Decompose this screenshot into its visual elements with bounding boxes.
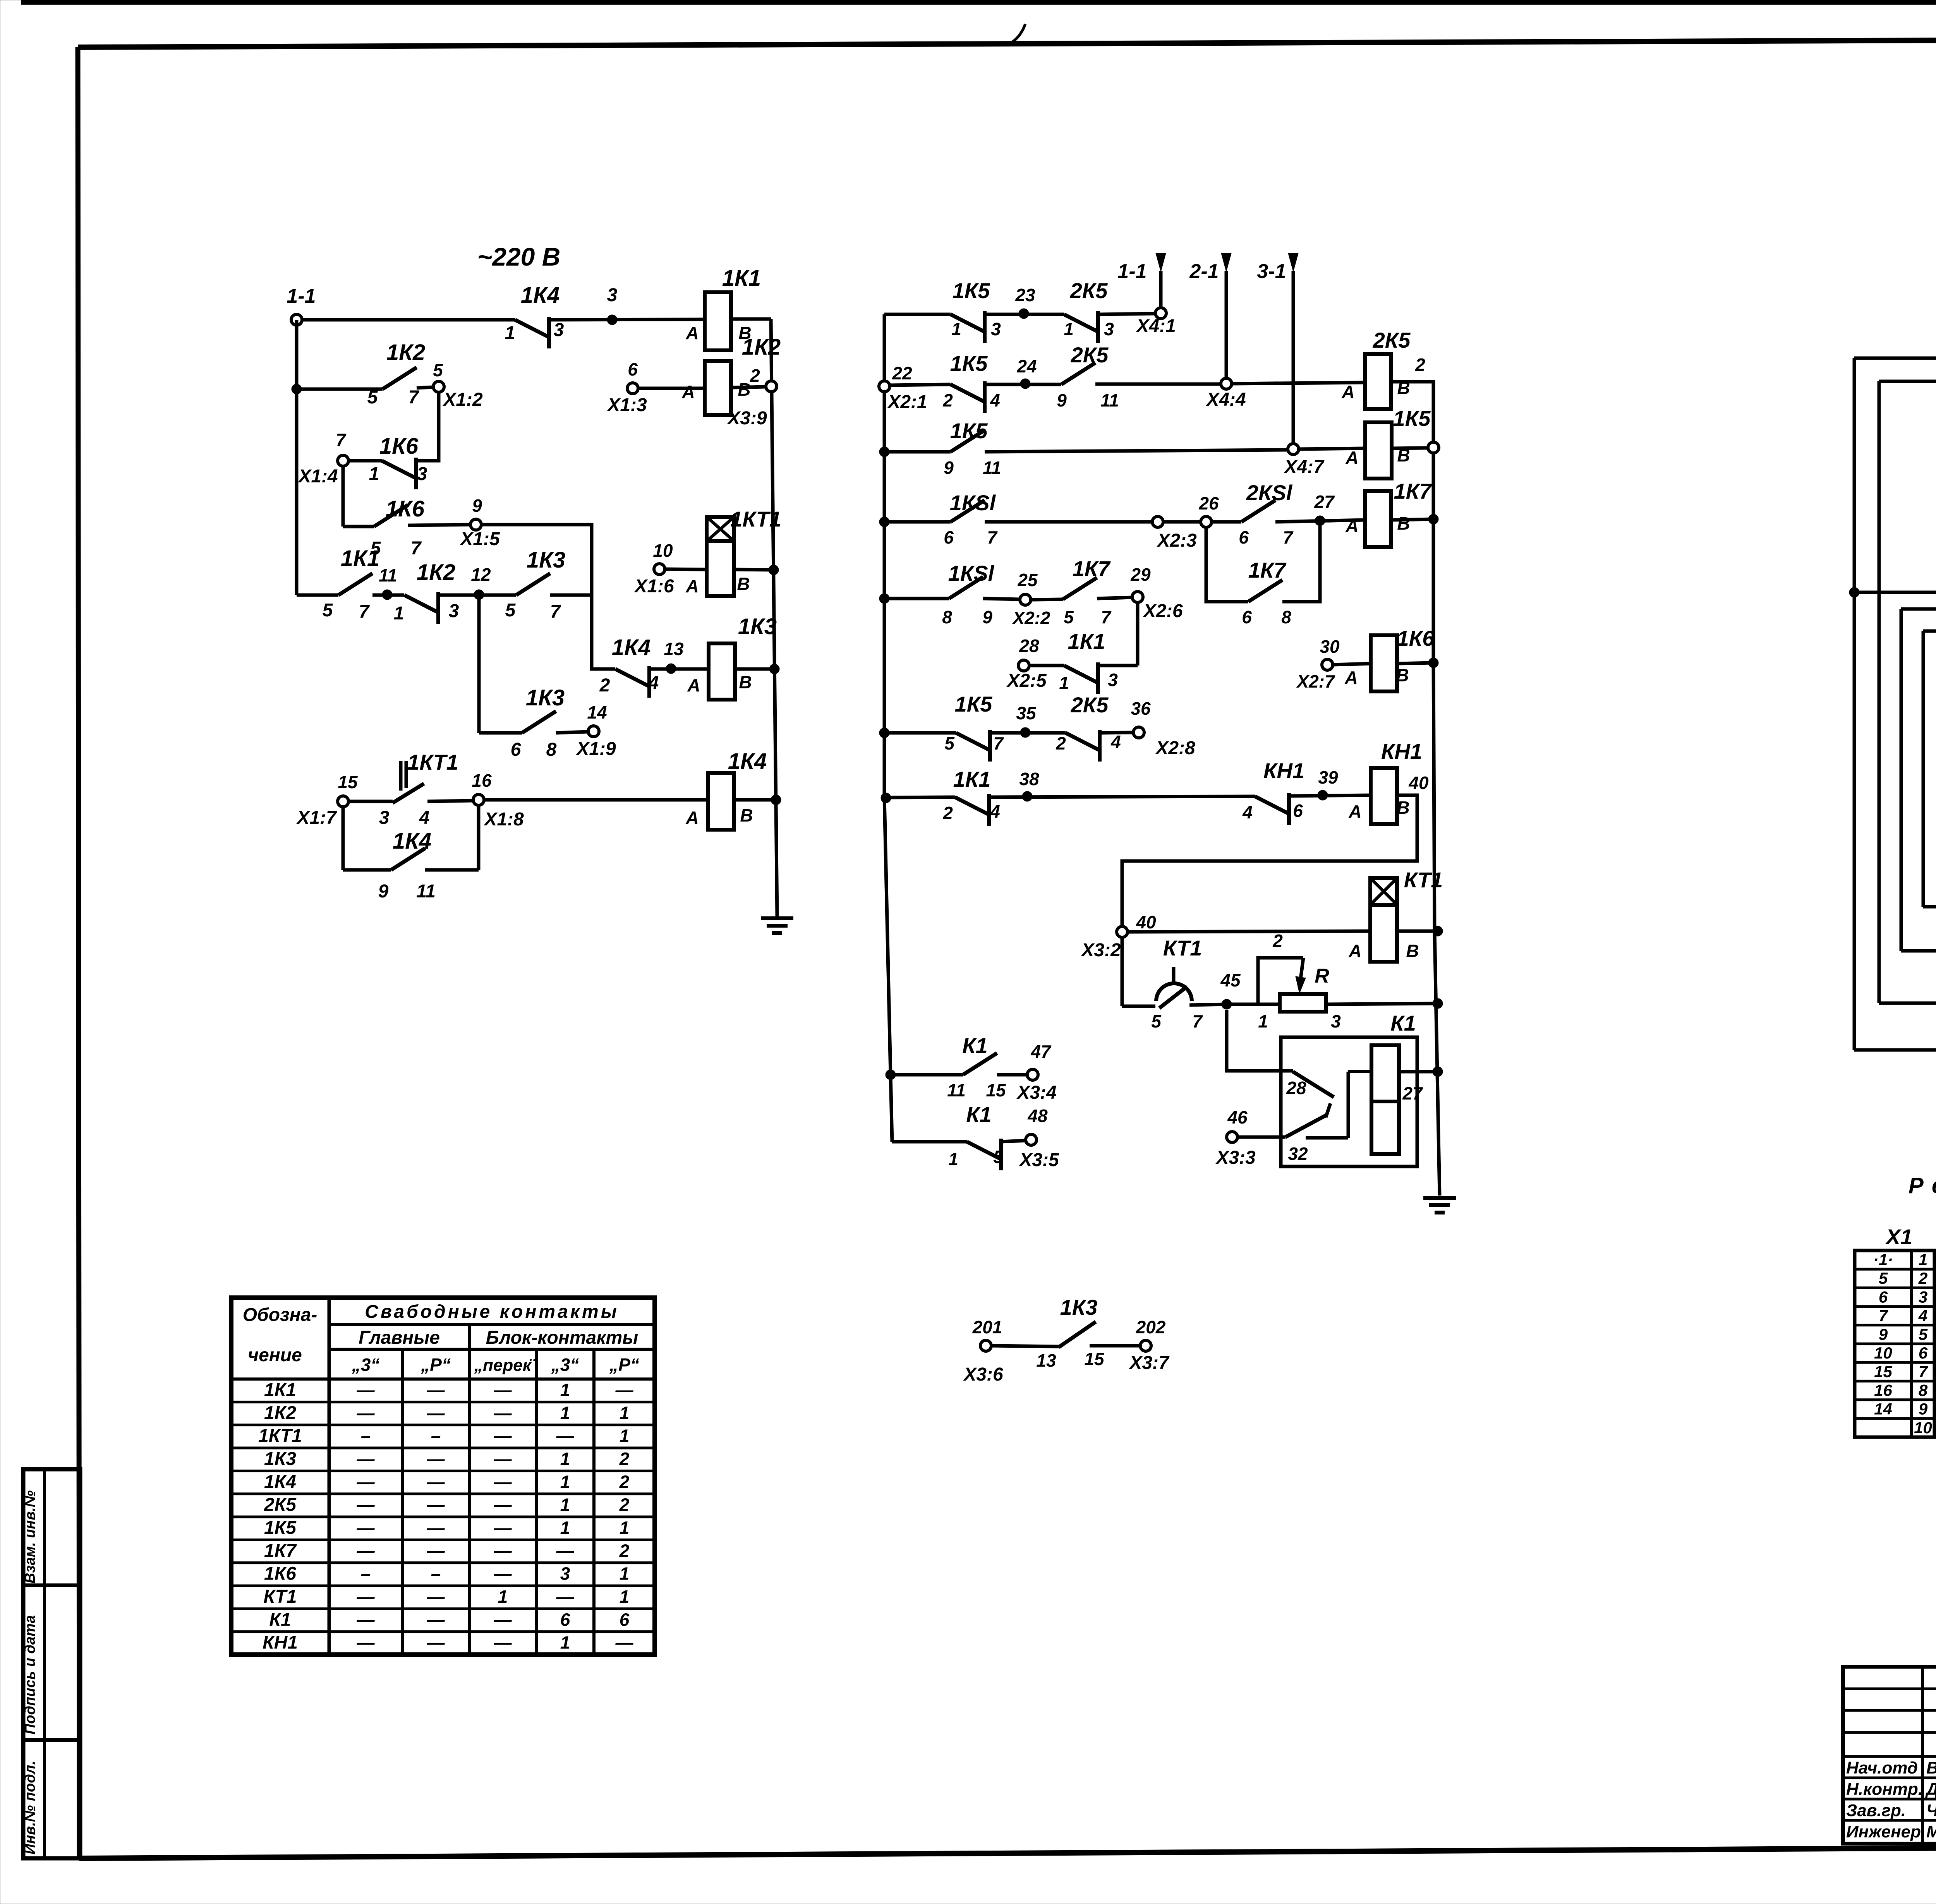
svg-text:14: 14 <box>1874 1400 1892 1418</box>
wire <box>985 520 1152 524</box>
svg-text:1К3: 1К3 <box>526 685 565 710</box>
line 51 <box>1901 923 1936 959</box>
svg-text:1-1: 1-1 <box>1117 260 1146 283</box>
contact 2K5 b2 <box>1057 343 1119 410</box>
contact 1K5 <box>951 278 1001 343</box>
svg-text:X2:3: X2:3 <box>1156 530 1197 551</box>
svg-text:25: 25 <box>1017 570 1038 590</box>
svg-text:—: — <box>494 1426 512 1446</box>
svg-text:2-1: 2-1 <box>1189 260 1219 283</box>
svg-text:1К4: 1К4 <box>728 749 767 774</box>
svg-text:1К1: 1К1 <box>722 266 761 291</box>
svg-text:—: — <box>357 1518 375 1538</box>
svg-text:1К6: 1К6 <box>379 434 419 459</box>
svg-text:29: 29 <box>1130 564 1151 585</box>
svg-text:X3:7: X3:7 <box>1128 1353 1170 1373</box>
svg-text:2: 2 <box>942 390 953 410</box>
wire <box>372 593 404 597</box>
svg-text:1К1: 1К1 <box>1068 629 1105 654</box>
svg-text:Свабодные контакты: Свабодные контакты <box>365 1302 619 1322</box>
svg-text:—: — <box>494 1472 512 1492</box>
right rail A <box>771 319 777 917</box>
svg-text:5: 5 <box>1919 1325 1928 1343</box>
svg-text:11: 11 <box>947 1080 966 1100</box>
svg-text:201: 201 <box>972 1317 1002 1337</box>
wire 45 down <box>1227 1010 1293 1071</box>
svg-text:9: 9 <box>944 458 954 478</box>
junction 39 <box>1318 767 1338 800</box>
svg-text:28: 28 <box>1286 1078 1306 1098</box>
svg-text:6: 6 <box>628 359 638 379</box>
svg-text:–: – <box>431 1426 441 1446</box>
svg-text:4: 4 <box>990 390 1000 410</box>
junction row B5 <box>879 593 889 604</box>
terminal 202 X3:7 <box>1128 1317 1170 1373</box>
terminal strip X1 <box>1855 1225 1934 1437</box>
svg-text:9: 9 <box>982 607 992 627</box>
contact 1K5 b2 <box>942 351 1000 413</box>
wire <box>549 319 704 320</box>
svg-text:9: 9 <box>1879 1325 1888 1343</box>
wire <box>417 387 433 388</box>
svg-text:1К5: 1К5 <box>264 1518 297 1538</box>
contact count table <box>231 1298 655 1655</box>
svg-text:„Р“: „Р“ <box>420 1355 451 1375</box>
svg-text:X4:1: X4:1 <box>1135 316 1176 336</box>
contact K1 32 <box>1286 1115 1348 1164</box>
svg-text:Подпись и дата: Подпись и дата <box>22 1615 38 1734</box>
svg-text:2К5: 2К5 <box>1071 343 1109 367</box>
contact 1K4 aux <box>378 828 436 902</box>
relay coil 1K7 <box>1345 479 1432 547</box>
relay coil 1K3 <box>687 614 777 700</box>
row B3 wire <box>884 450 951 454</box>
svg-text:3: 3 <box>417 464 427 484</box>
svg-text:1КТ1: 1КТ1 <box>258 1426 302 1446</box>
feeder 3-1 <box>1257 253 1298 447</box>
terminal 29 X2:6 <box>1130 564 1183 621</box>
terminal 30 X2:7 <box>1296 636 1340 691</box>
svg-text:2КSl: 2КSl <box>1246 480 1293 505</box>
svg-text:Давлианидзе: Давлианидзе <box>1925 1780 1936 1799</box>
svg-text:24: 24 <box>1016 356 1037 376</box>
svg-text:2: 2 <box>619 1495 630 1515</box>
junction 27 <box>1314 492 1335 526</box>
relay coil K1 <box>1371 1045 1423 1154</box>
svg-text:X1:6: X1:6 <box>633 576 674 597</box>
svg-text:1К3: 1К3 <box>1060 1295 1098 1319</box>
svg-text:1-1: 1-1 <box>287 285 316 307</box>
svg-text:9: 9 <box>1919 1400 1928 1418</box>
svg-text:1: 1 <box>1919 1250 1927 1269</box>
terminal 25 X2:2 <box>1011 570 1050 628</box>
svg-text:—: — <box>357 1449 375 1469</box>
svg-text:В: В <box>737 574 750 594</box>
wire <box>1122 1005 1155 1008</box>
junction row B3 <box>879 447 889 457</box>
wire <box>649 667 708 671</box>
svg-text:КТ1: КТ1 <box>263 1587 297 1607</box>
svg-text:X2:1: X2:1 <box>887 392 927 412</box>
node 1-1 <box>287 285 316 325</box>
terminal X1:7 <box>296 772 358 828</box>
svg-text:28: 28 <box>1019 636 1039 656</box>
svg-text:1: 1 <box>560 1472 570 1492</box>
left vertical 51 <box>1900 609 1903 951</box>
row A6 wire <box>479 731 522 735</box>
svg-text:3: 3 <box>1108 670 1118 690</box>
row B8 wire <box>886 797 955 798</box>
row B4 wire <box>884 520 951 524</box>
svg-text:1К5: 1К5 <box>950 351 988 376</box>
row A4 wire <box>297 593 338 597</box>
svg-text:16: 16 <box>1874 1381 1892 1399</box>
svg-text:—: — <box>427 1540 445 1561</box>
svg-text:7: 7 <box>359 602 370 622</box>
svg-text:2: 2 <box>942 803 953 823</box>
svg-text:40: 40 <box>1408 773 1429 793</box>
svg-text:В: В <box>1397 513 1410 533</box>
svg-text:Взам. инв.№: Взам. инв.№ <box>22 1491 38 1583</box>
wire <box>991 1346 1059 1347</box>
wire <box>477 805 481 870</box>
svg-text:7: 7 <box>411 538 422 559</box>
svg-text:9: 9 <box>472 496 482 516</box>
svg-text:А: А <box>1348 801 1361 822</box>
svg-text:—: — <box>556 1426 575 1446</box>
wire <box>1232 383 1365 384</box>
contact 1K1 <box>323 546 379 622</box>
svg-text:Рейки, устанавливаемые слева: Рейки, устанавливаемые слева <box>1909 1173 1936 1198</box>
wire <box>1432 453 1435 519</box>
svg-text:—: — <box>427 1403 445 1423</box>
svg-text:2К5: 2К5 <box>1373 328 1411 352</box>
wire <box>427 801 473 801</box>
svg-text:А: А <box>1341 382 1354 402</box>
terminal 22 X2:1 <box>879 363 927 412</box>
svg-text:1К5: 1К5 <box>955 692 993 716</box>
relay K1 box <box>1281 1011 1417 1166</box>
terminal 6 X1:3 <box>606 359 647 415</box>
svg-text:В: В <box>739 672 752 692</box>
svg-text:—: — <box>494 1380 512 1400</box>
svg-text:—: — <box>357 1633 375 1653</box>
wire 1KSL pin4 up <box>1901 609 1936 672</box>
svg-text:1КТ1: 1КТ1 <box>407 750 458 774</box>
wire <box>408 525 470 525</box>
svg-text:1К2: 1К2 <box>264 1403 296 1423</box>
svg-text:—: — <box>427 1587 445 1607</box>
svg-text:2: 2 <box>619 1472 630 1492</box>
junction <box>769 664 779 674</box>
svg-text:36: 36 <box>1131 698 1151 719</box>
svg-text:6: 6 <box>1242 607 1252 627</box>
svg-text:3: 3 <box>607 285 618 305</box>
svg-text:15: 15 <box>338 772 358 792</box>
wire <box>985 450 1288 452</box>
row B7 wire <box>884 731 956 735</box>
svg-text:16: 16 <box>472 770 492 791</box>
svg-text:12: 12 <box>471 564 491 585</box>
svg-text:2: 2 <box>750 365 760 386</box>
svg-text:4: 4 <box>990 801 1000 822</box>
svg-text:—: — <box>357 1403 375 1423</box>
svg-text:6: 6 <box>511 739 521 760</box>
wire <box>438 593 516 597</box>
svg-text:15: 15 <box>986 1080 1006 1100</box>
svg-text:27: 27 <box>1314 492 1335 512</box>
svg-text:„3“: „3“ <box>352 1355 380 1375</box>
wire <box>1391 382 1433 441</box>
contact 1K2 <box>367 340 425 408</box>
svg-text:5: 5 <box>505 600 516 621</box>
svg-text:1К3: 1К3 <box>264 1449 296 1469</box>
svg-text:1КТ1: 1КТ1 <box>730 507 781 531</box>
resistor R <box>1258 931 1341 1031</box>
svg-text:R: R <box>1315 965 1329 987</box>
junction row B4 <box>879 517 889 527</box>
svg-text:6: 6 <box>1293 801 1303 821</box>
svg-text:7: 7 <box>550 602 561 622</box>
svg-text:1: 1 <box>620 1564 630 1584</box>
svg-text:В: В <box>1406 941 1419 961</box>
svg-text:1: 1 <box>560 1403 570 1423</box>
relay coil 1K6 <box>1344 626 1435 691</box>
junction 35 <box>1016 703 1037 738</box>
wire <box>734 569 774 570</box>
svg-text:5: 5 <box>944 733 955 753</box>
junction 45 <box>1220 970 1241 1009</box>
svg-text:—: — <box>357 1609 375 1630</box>
svg-text:—: — <box>357 1587 375 1607</box>
terminal 40 X3:2 <box>1080 912 1156 961</box>
left rail B <box>884 314 892 1142</box>
svg-text:2: 2 <box>619 1540 630 1561</box>
wire 1KSL pin1 feed <box>1854 592 1936 672</box>
wire <box>1121 937 1124 1006</box>
junction 11 <box>379 565 397 600</box>
wire <box>425 868 479 872</box>
svg-text:А: А <box>685 808 699 828</box>
svg-text:45: 45 <box>1220 970 1241 990</box>
svg-text:13: 13 <box>664 639 684 659</box>
svg-text:1: 1 <box>1258 1011 1268 1031</box>
terminal 48 X3:5 <box>1018 1106 1059 1170</box>
svg-text:11: 11 <box>379 565 397 585</box>
wire <box>348 800 393 803</box>
junction row B7 <box>879 728 889 738</box>
svg-text:—: — <box>494 1403 512 1423</box>
wire <box>1098 664 1138 667</box>
terminal 28 X2:5 <box>1006 636 1047 691</box>
svg-text:Вишневский: Вишневский <box>1926 1758 1936 1777</box>
terminal 201 X3:6 <box>963 1317 1003 1385</box>
contact KT1 delayed <box>1151 936 1203 1031</box>
svg-text:2: 2 <box>1415 355 1425 375</box>
contact 1KSL <box>944 491 998 547</box>
svg-text:2: 2 <box>599 675 610 696</box>
svg-text:6: 6 <box>1879 1288 1888 1306</box>
wire <box>1289 795 1371 796</box>
terminal 14 X1:9 <box>575 702 616 759</box>
svg-text:6: 6 <box>1919 1344 1928 1362</box>
svg-text:Н.контр.: Н.контр. <box>1846 1780 1923 1799</box>
svg-text:—: — <box>357 1495 375 1515</box>
svg-text:КН1: КН1 <box>1263 758 1304 783</box>
wire <box>1001 1141 1026 1142</box>
svg-text:2: 2 <box>1272 931 1283 951</box>
relay coil 1K1 <box>685 266 761 350</box>
svg-text:X3:9: X3:9 <box>726 408 767 429</box>
svg-text:1: 1 <box>505 323 515 343</box>
junction <box>1849 587 1859 597</box>
wire <box>342 807 345 870</box>
row 48 wire <box>892 1140 967 1144</box>
svg-text:А: А <box>687 675 700 695</box>
svg-text:7: 7 <box>336 430 347 450</box>
junction 3 <box>607 285 618 325</box>
svg-text:15: 15 <box>1084 1349 1105 1369</box>
svg-text:X4:4: X4:4 <box>1205 389 1246 410</box>
svg-text:6: 6 <box>620 1609 630 1630</box>
svg-text:1: 1 <box>560 1449 570 1469</box>
wire <box>1432 519 1435 663</box>
terminal X4:1 <box>1135 308 1176 336</box>
svg-text:9: 9 <box>1057 390 1067 410</box>
svg-text:39: 39 <box>1318 767 1338 787</box>
terminal X1:5 <box>459 496 500 549</box>
wire <box>1333 664 1371 665</box>
svg-text:5: 5 <box>323 600 333 621</box>
svg-text:8: 8 <box>546 739 557 760</box>
svg-text:1К1: 1К1 <box>264 1380 296 1400</box>
wire <box>343 868 391 872</box>
contact 1K5 b3 <box>944 419 1001 478</box>
svg-text:X1:5: X1:5 <box>459 529 500 549</box>
svg-text:11: 11 <box>1100 390 1119 410</box>
svg-text:X2:6: X2:6 <box>1142 601 1183 621</box>
svg-text:X2:2: X2:2 <box>1011 608 1050 628</box>
contact 1K2 <box>394 560 459 624</box>
svg-text:32: 32 <box>1288 1144 1308 1164</box>
svg-text:4: 4 <box>1242 802 1253 822</box>
svg-text:1К6: 1К6 <box>1397 626 1435 650</box>
svg-text:X1: X1 <box>1885 1225 1913 1249</box>
svg-text:1: 1 <box>394 603 404 624</box>
wire <box>734 798 776 802</box>
svg-text:—: — <box>357 1540 375 1561</box>
terminal X4:7 <box>1283 444 1325 477</box>
wire <box>638 387 706 390</box>
svg-text:X3:4: X3:4 <box>1016 1082 1056 1103</box>
wire <box>997 1073 1027 1077</box>
wire <box>1163 520 1201 524</box>
wire <box>1397 930 1440 933</box>
wire <box>1097 597 1132 599</box>
row B1 wire <box>884 313 951 316</box>
junction 23 <box>1015 285 1035 319</box>
contact 1K4 row A5 <box>599 635 659 698</box>
svg-text:202: 202 <box>1136 1317 1166 1337</box>
wire <box>990 731 1066 735</box>
svg-text:1К1: 1К1 <box>341 546 379 571</box>
svg-text:2К5: 2К5 <box>1070 278 1108 303</box>
svg-text:Инв.№ подл.: Инв.№ подл. <box>22 1761 38 1854</box>
junction 38 <box>1019 769 1039 801</box>
contact 1K3 <box>505 547 565 622</box>
left vertical 50 <box>1853 358 1856 1050</box>
row B2 wire <box>890 384 951 385</box>
wire <box>1136 602 1140 666</box>
svg-text:1К7: 1К7 <box>1073 556 1111 581</box>
svg-text:X2:8: X2:8 <box>1155 738 1195 758</box>
wire <box>1100 732 1133 733</box>
right rail B <box>1435 931 1440 1196</box>
svg-text:11: 11 <box>983 458 1001 478</box>
svg-text:—: — <box>494 1633 512 1653</box>
contact 1K1 b6 <box>1059 629 1118 694</box>
svg-text:X2:7: X2:7 <box>1296 671 1335 691</box>
contact 1K1 b8 <box>942 767 1000 826</box>
svg-text:6: 6 <box>560 1609 570 1630</box>
terminal X4:4 <box>1205 378 1246 410</box>
svg-text:1К3: 1К3 <box>527 547 565 573</box>
svg-text:7: 7 <box>987 527 998 547</box>
terminal 47 X3:4 <box>1016 1041 1056 1103</box>
svg-text:46: 46 <box>1227 1107 1248 1127</box>
svg-text:40: 40 <box>1136 912 1156 932</box>
svg-text:X3:2: X3:2 <box>1080 940 1121 961</box>
svg-text:X1:4: X1:4 <box>297 466 338 487</box>
svg-text:X1:3: X1:3 <box>606 395 647 415</box>
svg-text:X3:6: X3:6 <box>963 1364 1003 1385</box>
svg-text:—: — <box>494 1518 512 1538</box>
svg-text:5: 5 <box>993 1147 1004 1167</box>
terminal X1:2 <box>433 360 483 410</box>
svg-text:А: А <box>1348 941 1361 961</box>
wire <box>342 466 345 527</box>
caption Рейки устанавливаемые слева <box>1909 1173 1936 1198</box>
svg-text:30: 30 <box>1320 636 1340 657</box>
junction 24 <box>1016 356 1037 389</box>
svg-text:КН1: КН1 <box>1381 739 1422 763</box>
wire <box>1095 383 1221 386</box>
svg-text:X1:9: X1:9 <box>575 739 616 759</box>
svg-text:—: — <box>494 1495 512 1515</box>
wire 2KSL pin1 up <box>1854 358 1936 420</box>
svg-text:8: 8 <box>1919 1381 1928 1399</box>
svg-text:7: 7 <box>1879 1307 1888 1325</box>
svg-text:2К5: 2К5 <box>1071 693 1109 717</box>
svg-text:5: 5 <box>367 387 378 408</box>
svg-text:Чаруева: Чаруева <box>1926 1801 1936 1820</box>
contact KH1 <box>1242 758 1304 825</box>
svg-text:3: 3 <box>560 1564 570 1584</box>
svg-text:1КSl: 1КSl <box>948 561 995 585</box>
svg-text:·1·: ·1· <box>1873 1250 1893 1269</box>
svg-text:1: 1 <box>560 1633 570 1653</box>
svg-text:—: — <box>427 1380 445 1400</box>
svg-text:10: 10 <box>1874 1344 1892 1362</box>
junction <box>1428 514 1438 524</box>
line 53 <box>1879 975 1936 1011</box>
svg-text:1К4: 1К4 <box>264 1472 296 1492</box>
wire <box>1433 663 1435 931</box>
wire <box>1227 1003 1280 1006</box>
svg-text:10: 10 <box>1914 1419 1932 1437</box>
junction <box>769 565 779 575</box>
svg-text:14: 14 <box>587 702 607 722</box>
